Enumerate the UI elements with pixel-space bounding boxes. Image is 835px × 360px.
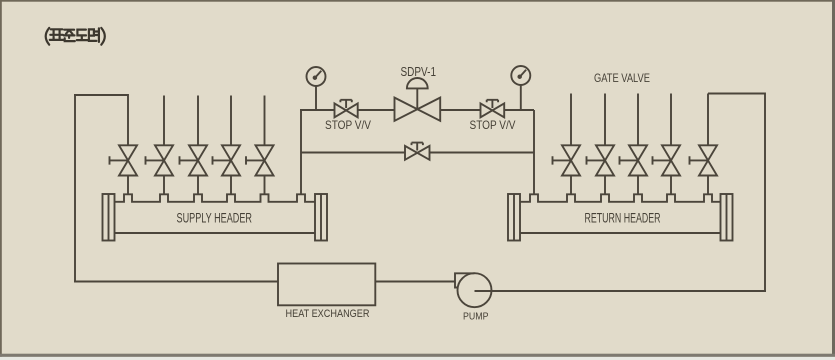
wire supply branch 5 riser <box>264 96 266 146</box>
wire center left drop to supply header <box>300 110 302 194</box>
wire main line segment 2 <box>358 109 395 111</box>
wire pump discharge <box>475 290 767 292</box>
pump P1 <box>455 273 492 307</box>
svg-text:SUPPLY HEADER: SUPPLY HEADER <box>177 210 253 225</box>
wire main line segment 3 <box>440 109 480 111</box>
return header left flange <box>508 194 520 241</box>
wire supply branch 4 drop <box>230 176 232 195</box>
wire return branch 4 riser <box>670 94 672 146</box>
pressure gauge PG1 <box>307 67 326 110</box>
svg-text:STOP V/V: STOP V/V <box>470 118 516 132</box>
wire supply branch 4 riser <box>230 96 232 146</box>
gate valve supply 4 <box>213 145 241 175</box>
gate valve return 4 <box>653 145 681 175</box>
svg-text:HEAT EXCHANGER: HEAT EXCHANGER <box>286 308 370 320</box>
wire bypass line left <box>301 152 405 154</box>
pressure gauge PG2 <box>511 66 530 110</box>
title (표준도면) drawn strokes <box>46 28 105 45</box>
gate valve return 5 <box>690 145 718 175</box>
wire left loop top horizontal <box>74 94 128 96</box>
wire right loop top horizontal <box>708 93 765 95</box>
svg-text:PUMP: PUMP <box>463 312 489 323</box>
return header right flange <box>721 194 733 241</box>
gate valve supply 3 <box>180 145 208 175</box>
wire return branch 3 riser <box>637 94 639 146</box>
stop valve SV2 <box>481 100 505 118</box>
wire right loop vertical <box>764 93 766 292</box>
scan border top <box>0 0 835 2</box>
wire return branch 5 riser <box>707 94 709 146</box>
wire supply branch 5 drop <box>264 176 266 195</box>
supply header right flange <box>315 194 327 241</box>
gate valve supply 2 <box>146 145 174 175</box>
wire supply branch 2 riser <box>163 96 165 146</box>
wire center right drop to return header <box>533 110 535 194</box>
svg-text:GATE VALVE: GATE VALVE <box>594 71 650 85</box>
scan border right <box>832 0 835 356</box>
svg-text:RETURN HEADER: RETURN HEADER <box>585 210 661 225</box>
gate valve return 1 <box>553 145 581 175</box>
gate valve return 3 <box>620 145 648 175</box>
control valve SDPV-1 <box>395 78 441 121</box>
svg-text:SDPV-1: SDPV-1 <box>401 64 437 79</box>
bypass valve <box>405 143 430 160</box>
scan border left <box>0 0 2 357</box>
wire return branch 5 drop <box>707 176 709 195</box>
wire return branch 2 riser <box>604 94 606 146</box>
wire left loop vertical <box>74 95 76 282</box>
gate valve return 2 <box>587 145 615 175</box>
wire supply branch 2 drop <box>163 176 165 195</box>
wire return branch 3 drop <box>637 176 639 195</box>
wire main line gauge2 segment <box>504 109 534 111</box>
heat exchanger <box>278 264 375 306</box>
wire main line gauge1 segment <box>300 109 335 111</box>
wire return branch 4 drop <box>670 176 672 195</box>
return header shell <box>520 194 721 233</box>
scan bottom white strip <box>0 357 835 360</box>
wire return branch 1 riser <box>570 94 572 146</box>
supply header shell <box>115 194 316 233</box>
wire supply branch 1 riser <box>127 94 129 145</box>
wire supply branch 1 drop <box>127 176 129 195</box>
wire supply branch 3 riser <box>197 96 199 146</box>
wire supply branch 3 drop <box>197 176 199 195</box>
wire bottom line left to heat exchanger <box>74 281 278 283</box>
svg-text:STOP V/V: STOP V/V <box>325 118 371 132</box>
supply header left flange <box>103 194 115 241</box>
stop valve SV1 <box>335 100 358 118</box>
wire bypass line right <box>430 152 535 154</box>
wire return branch 1 drop <box>570 176 572 195</box>
gate valve supply 1 <box>110 145 138 175</box>
scan border bottom band <box>0 354 835 357</box>
gate valve supply 5 <box>246 145 274 175</box>
wire return branch 2 drop <box>604 176 606 195</box>
wire heat exchanger to pump <box>375 281 455 283</box>
